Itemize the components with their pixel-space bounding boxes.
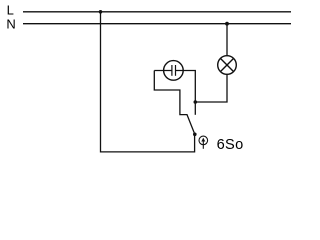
wire L rail [23, 11, 291, 13]
wire N rail [23, 23, 291, 25]
switch actuator (pull-cord circle with arrow) [199, 136, 208, 149]
node dot on L rail [99, 10, 103, 14]
switch right contact [194, 102, 196, 115]
glow lamp E1 circle [164, 61, 184, 81]
wire: glow-lamp right lead down to node [176, 71, 196, 103]
wire: lamp top to N rail [226, 24, 228, 56]
wire: node to lamp bottom [195, 74, 227, 102]
wire: drop from L down, along bottom, up to switch pivot [101, 12, 195, 152]
node dot at switch/lamp junction [194, 100, 198, 104]
glow lamp E1 plates [172, 65, 176, 76]
lamp E2 circle with cross [218, 56, 237, 75]
node dot on N rail [225, 22, 229, 26]
node dot switch pivot [193, 133, 197, 137]
wire: glow-lamp left lead [154, 70, 172, 72]
switch Q blade and left contact path (step from glow lamp) [154, 71, 195, 135]
svg-text:N: N [6, 16, 15, 31]
svg-text:6So: 6So [217, 137, 244, 153]
switch actuator arrowhead [201, 138, 205, 142]
